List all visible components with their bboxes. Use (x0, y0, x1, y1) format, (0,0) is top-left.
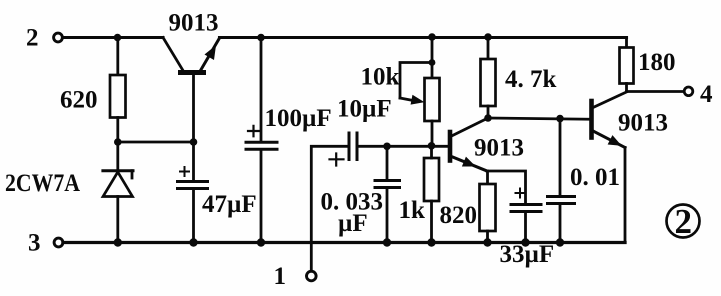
capacitor 33uF (487, 171, 541, 243)
node 4.7k bottom / Q3 base (484, 114, 492, 122)
capacitor 0.01 (548, 119, 575, 243)
node 0.01 bottom (556, 238, 564, 246)
node pot wiper tap (429, 59, 436, 66)
node 100uF top (257, 34, 265, 42)
resistor 1k (424, 146, 439, 243)
capacitor 100uF (246, 38, 277, 243)
svg-text:0. 01: 0. 01 (570, 164, 620, 191)
node link left (114, 138, 122, 146)
terminal 2 (54, 33, 63, 42)
wire Q3 base line (488, 118, 590, 119)
node 0.033 top (383, 143, 391, 151)
svg-text:2: 2 (26, 25, 39, 52)
svg-text:2: 2 (675, 202, 693, 241)
svg-text:3: 3 (28, 230, 41, 257)
svg-text:2CW7A: 2CW7A (5, 170, 80, 197)
wire input riser (311, 146, 349, 271)
node 820 bottom (483, 238, 491, 246)
node link right (190, 138, 198, 146)
terminal 4 (627, 87, 693, 96)
node 100uF bottom (257, 238, 265, 246)
transistor Q2 9013 (450, 118, 488, 171)
node 47uF bottom (189, 238, 197, 246)
transistor Q1 9013 (163, 38, 220, 143)
capacitor 0.033uF (375, 146, 400, 242)
node 1k bottom (427, 238, 435, 246)
svg-text:µF: µF (338, 210, 368, 237)
svg-text:100µF: 100µF (265, 105, 332, 132)
svg-text:9013: 9013 (169, 10, 219, 37)
resistor 4.7k (481, 38, 496, 119)
terminal 3 (54, 238, 63, 247)
svg-text:10k: 10k (361, 64, 400, 91)
svg-text:10µF: 10µF (337, 96, 392, 123)
wire top rail (63, 36, 627, 39)
zener diode 2CW7A (103, 142, 133, 243)
svg-text:4: 4 (700, 81, 713, 108)
terminal 1 (307, 271, 317, 281)
svg-text:1: 1 (274, 263, 287, 290)
capacitor 47uF (178, 142, 208, 243)
svg-text:620: 620 (60, 87, 98, 114)
svg-text:9013: 9013 (618, 110, 668, 137)
resistor R1 620 (110, 38, 126, 143)
node 0.033 bottom (383, 238, 391, 246)
svg-text:1k: 1k (399, 197, 426, 224)
svg-text:180: 180 (638, 49, 676, 76)
resistor 180 (620, 38, 634, 92)
resistor 820 (480, 171, 496, 243)
svg-text:47µF: 47µF (202, 191, 257, 218)
potentiometer RP 10k (400, 38, 440, 146)
capacitor 10uF (330, 133, 449, 166)
svg-text:4. 7k: 4. 7k (505, 66, 557, 93)
node 0.01 top (556, 115, 564, 123)
figure number circled 2 (667, 202, 700, 241)
svg-text:9013: 9013 (474, 135, 524, 162)
wire base link (118, 141, 194, 144)
svg-text:820: 820 (440, 202, 478, 229)
node 33uF bottom (521, 238, 529, 246)
node 620 top junction (114, 34, 122, 42)
transistor Q3 9013 (592, 92, 627, 243)
node 4.7k top (484, 33, 492, 41)
node base Q2 (428, 142, 436, 150)
node zener bottom (114, 238, 122, 246)
node pot top (428, 33, 436, 41)
wire bottom rail (63, 241, 625, 244)
